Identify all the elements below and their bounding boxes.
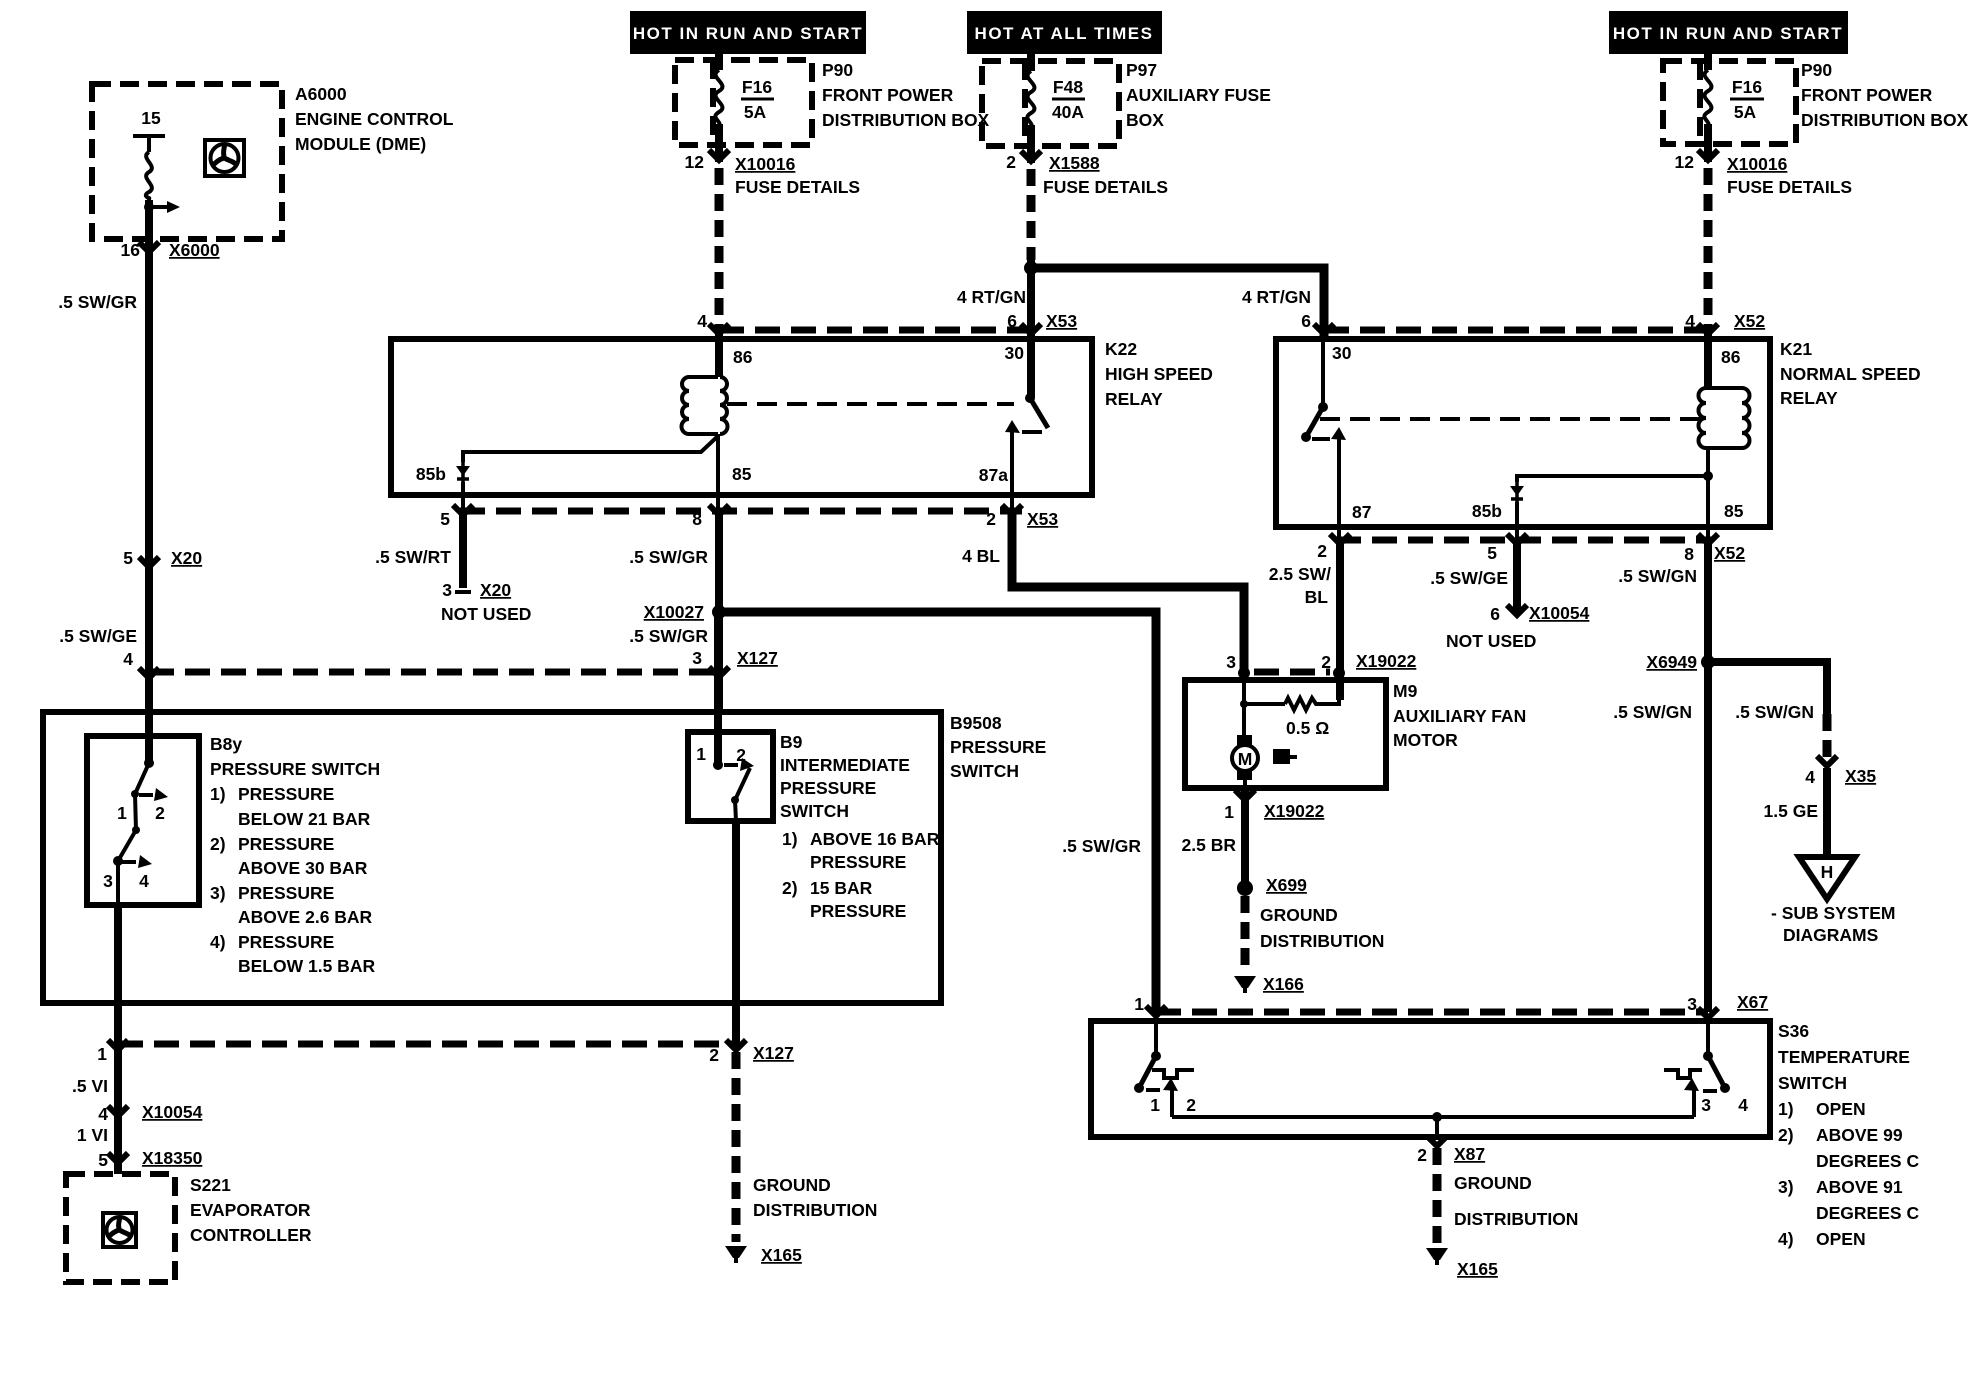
svg-text:OPEN: OPEN	[1816, 1099, 1866, 1119]
svg-text:INTERMEDIATE: INTERMEDIATE	[780, 755, 910, 775]
svg-text:5: 5	[1487, 543, 1497, 563]
svg-text:2.5 SW/: 2.5 SW/	[1269, 564, 1331, 584]
svg-text:DISTRIBUTION: DISTRIBUTION	[1454, 1209, 1578, 1229]
svg-text:MOTOR: MOTOR	[1393, 730, 1458, 750]
svg-text:2): 2)	[782, 878, 798, 898]
svg-text:ABOVE 91: ABOVE 91	[1816, 1177, 1903, 1197]
svg-text:X20: X20	[480, 580, 511, 600]
svg-text:OPEN: OPEN	[1816, 1229, 1866, 1249]
svg-text:1): 1)	[782, 829, 798, 849]
svg-text:6: 6	[1301, 311, 1311, 331]
svg-text:12: 12	[1675, 152, 1695, 172]
svg-text:F48: F48	[1053, 77, 1083, 97]
svg-text:HOT IN RUN AND START: HOT IN RUN AND START	[1613, 24, 1843, 43]
svg-text:2): 2)	[1778, 1125, 1794, 1145]
svg-text:X6000: X6000	[169, 240, 220, 260]
svg-text:PRESSURE: PRESSURE	[238, 883, 334, 903]
svg-text:X127: X127	[737, 648, 778, 668]
svg-text:PRESSURE: PRESSURE	[780, 778, 876, 798]
svg-text:DISTRIBUTION BOX: DISTRIBUTION BOX	[1801, 110, 1969, 130]
svg-text:FUSE DETAILS: FUSE DETAILS	[1043, 177, 1168, 197]
svg-text:RELAY: RELAY	[1780, 388, 1838, 408]
svg-text:4 RT/GN: 4 RT/GN	[1242, 287, 1311, 307]
svg-text:FRONT POWER: FRONT POWER	[822, 85, 954, 105]
svg-text:X52: X52	[1734, 311, 1765, 331]
svg-text:X699: X699	[1266, 875, 1307, 895]
svg-text:15: 15	[141, 108, 161, 128]
svg-text:SWITCH: SWITCH	[950, 761, 1019, 781]
svg-text:X53: X53	[1027, 509, 1058, 529]
svg-text:DIAGRAMS: DIAGRAMS	[1783, 925, 1878, 945]
svg-text:.5 SW/RT: .5 SW/RT	[375, 547, 451, 567]
svg-text:30: 30	[1005, 343, 1025, 363]
svg-text:ABOVE 16 BAR: ABOVE 16 BAR	[810, 829, 940, 849]
svg-text:5: 5	[123, 548, 133, 568]
svg-text:K21: K21	[1780, 339, 1812, 359]
svg-text:X52: X52	[1714, 543, 1745, 563]
svg-text:4 RT/GN: 4 RT/GN	[957, 287, 1026, 307]
svg-text:5A: 5A	[1734, 102, 1757, 122]
svg-text:BELOW 21 BAR: BELOW 21 BAR	[238, 809, 371, 829]
svg-text:5: 5	[440, 509, 450, 529]
svg-text:X19022: X19022	[1264, 801, 1325, 821]
svg-text:PRESSURE: PRESSURE	[238, 834, 334, 854]
svg-text:87: 87	[1352, 502, 1371, 522]
svg-text:EVAPORATOR: EVAPORATOR	[190, 1200, 311, 1220]
svg-text:30: 30	[1332, 343, 1352, 363]
svg-text:B9508: B9508	[950, 713, 1002, 733]
svg-text:BL: BL	[1305, 587, 1329, 607]
svg-text:2: 2	[1186, 1095, 1196, 1115]
svg-text:CONTROLLER: CONTROLLER	[190, 1225, 312, 1245]
svg-text:MODULE (DME): MODULE (DME)	[295, 134, 426, 154]
svg-text:85: 85	[1724, 501, 1744, 521]
svg-text:3: 3	[692, 648, 702, 668]
svg-text:2: 2	[986, 509, 996, 529]
svg-text:DEGREES C: DEGREES C	[1816, 1151, 1919, 1171]
svg-text:PRESSURE: PRESSURE	[238, 932, 334, 952]
svg-text:B8y: B8y	[210, 734, 242, 754]
svg-text:3: 3	[1687, 994, 1697, 1014]
svg-text:X127: X127	[753, 1043, 794, 1063]
svg-text:4: 4	[98, 1104, 108, 1124]
svg-text:1): 1)	[1778, 1099, 1794, 1119]
svg-text:FUSE DETAILS: FUSE DETAILS	[1727, 177, 1852, 197]
svg-text:12: 12	[685, 152, 705, 172]
svg-text:X18350: X18350	[142, 1148, 203, 1168]
svg-text:FUSE DETAILS: FUSE DETAILS	[735, 177, 860, 197]
svg-text:3: 3	[103, 871, 113, 891]
svg-text:0.5 Ω: 0.5 Ω	[1286, 718, 1329, 738]
svg-text:DISTRIBUTION: DISTRIBUTION	[1260, 931, 1384, 951]
svg-text:4: 4	[123, 649, 133, 669]
svg-text:HOT IN RUN AND START: HOT IN RUN AND START	[633, 24, 863, 43]
svg-text:2.5 BR: 2.5 BR	[1182, 835, 1237, 855]
svg-text:8: 8	[1684, 544, 1694, 564]
svg-text:GROUND: GROUND	[1260, 905, 1338, 925]
svg-text:1: 1	[117, 803, 127, 823]
svg-text:F16: F16	[1732, 77, 1762, 97]
svg-text:4: 4	[697, 311, 707, 331]
svg-text:X165: X165	[761, 1245, 802, 1265]
svg-text:ENGINE CONTROL: ENGINE CONTROL	[295, 109, 454, 129]
svg-text:1: 1	[1134, 994, 1144, 1014]
svg-text:X10027: X10027	[644, 602, 704, 622]
svg-text:.5 SW/GN: .5 SW/GN	[1735, 702, 1814, 722]
svg-text:87a: 87a	[979, 465, 1008, 485]
svg-text:4: 4	[1738, 1095, 1748, 1115]
svg-text:PRESSURE: PRESSURE	[238, 784, 334, 804]
svg-text:SWITCH: SWITCH	[1778, 1073, 1847, 1093]
svg-text:X20: X20	[171, 548, 202, 568]
svg-text:15 BAR: 15 BAR	[810, 878, 873, 898]
svg-text:BELOW 1.5 BAR: BELOW 1.5 BAR	[238, 956, 375, 976]
svg-text:X19022: X19022	[1356, 651, 1417, 671]
svg-text:.5 SW/GE: .5 SW/GE	[59, 626, 137, 646]
svg-text:.5 SW/GE: .5 SW/GE	[1430, 568, 1508, 588]
svg-text:X6949: X6949	[1646, 652, 1697, 672]
svg-text:SWITCH: SWITCH	[780, 801, 849, 821]
svg-text:X165: X165	[1457, 1259, 1498, 1279]
svg-text:B9: B9	[780, 732, 803, 752]
svg-text:H: H	[1821, 862, 1834, 882]
svg-text:6: 6	[1490, 604, 1500, 624]
svg-text:2: 2	[155, 803, 165, 823]
svg-text:P97: P97	[1126, 60, 1157, 80]
svg-text:X87: X87	[1454, 1144, 1485, 1164]
svg-text:4: 4	[1685, 311, 1695, 331]
svg-text:PRESSURE: PRESSURE	[810, 852, 906, 872]
svg-text:86: 86	[733, 347, 753, 367]
svg-text:4 BL: 4 BL	[962, 546, 1000, 566]
svg-text:.5 SW/GR: .5 SW/GR	[1062, 836, 1141, 856]
svg-text:F16: F16	[742, 77, 772, 97]
svg-text:M: M	[1238, 749, 1253, 769]
svg-text:86: 86	[1721, 347, 1741, 367]
svg-text:ABOVE 2.6 BAR: ABOVE 2.6 BAR	[238, 907, 373, 927]
svg-text:.5 VI: .5 VI	[72, 1076, 108, 1096]
svg-text:FRONT POWER: FRONT POWER	[1801, 85, 1933, 105]
svg-text:X1588: X1588	[1049, 153, 1100, 173]
svg-text:2: 2	[709, 1045, 719, 1065]
svg-text:6: 6	[1007, 311, 1017, 331]
svg-text:X10054: X10054	[1529, 603, 1590, 623]
svg-text:4: 4	[139, 871, 149, 891]
svg-text:GROUND: GROUND	[753, 1175, 831, 1195]
svg-text:85b: 85b	[1472, 501, 1502, 521]
svg-text:2: 2	[1006, 152, 1016, 172]
svg-text:2: 2	[1417, 1145, 1427, 1165]
svg-text:DISTRIBUTION BOX: DISTRIBUTION BOX	[822, 110, 990, 130]
svg-text:85b: 85b	[416, 464, 446, 484]
svg-text:DISTRIBUTION: DISTRIBUTION	[753, 1200, 877, 1220]
svg-text:X35: X35	[1845, 766, 1876, 786]
svg-text:PRESSURE: PRESSURE	[810, 901, 906, 921]
svg-text:NORMAL SPEED: NORMAL SPEED	[1780, 364, 1921, 384]
svg-text:A6000: A6000	[295, 84, 347, 104]
svg-text:NOT USED: NOT USED	[441, 604, 531, 624]
svg-text:4: 4	[1805, 767, 1815, 787]
svg-text:P90: P90	[1801, 60, 1832, 80]
svg-text:1.5 GE: 1.5 GE	[1764, 801, 1818, 821]
svg-text:2: 2	[736, 745, 746, 765]
svg-text:AUXILIARY FUSE: AUXILIARY FUSE	[1126, 85, 1271, 105]
svg-text:3): 3)	[1778, 1177, 1794, 1197]
svg-text:8: 8	[692, 509, 702, 529]
svg-text:PRESSURE SWITCH: PRESSURE SWITCH	[210, 759, 380, 779]
svg-text:2: 2	[1317, 541, 1327, 561]
svg-text:3): 3)	[210, 883, 226, 903]
svg-text:.5 SW/GN: .5 SW/GN	[1618, 566, 1697, 586]
svg-text:HOT AT ALL TIMES: HOT AT ALL TIMES	[975, 24, 1154, 43]
svg-text:40A: 40A	[1052, 102, 1084, 122]
svg-text:ABOVE 99: ABOVE 99	[1816, 1125, 1903, 1145]
svg-text:5: 5	[98, 1150, 108, 1170]
svg-text:1: 1	[97, 1044, 107, 1064]
svg-text:1: 1	[1150, 1095, 1160, 1115]
svg-text:K22: K22	[1105, 339, 1137, 359]
svg-text:X67: X67	[1737, 992, 1768, 1012]
svg-text:P90: P90	[822, 60, 853, 80]
svg-text:4): 4)	[1778, 1229, 1794, 1249]
svg-text:X53: X53	[1046, 311, 1077, 331]
svg-text:M9: M9	[1393, 681, 1418, 701]
svg-text:BOX: BOX	[1126, 110, 1164, 130]
svg-text:3: 3	[442, 580, 452, 600]
svg-text:.5 SW/GR: .5 SW/GR	[629, 626, 708, 646]
svg-text:3: 3	[1226, 652, 1236, 672]
svg-text:- SUB SYSTEM: - SUB SYSTEM	[1771, 903, 1895, 923]
svg-text:X10016: X10016	[1727, 154, 1788, 174]
svg-text:.5 SW/GN: .5 SW/GN	[1613, 702, 1692, 722]
svg-text:1: 1	[1224, 802, 1234, 822]
svg-text:.5 SW/GR: .5 SW/GR	[629, 547, 708, 567]
svg-text:S36: S36	[1778, 1021, 1809, 1041]
svg-text:X10016: X10016	[735, 154, 796, 174]
svg-text:X10054: X10054	[142, 1102, 203, 1122]
svg-text:1: 1	[696, 744, 706, 764]
svg-text:X166: X166	[1263, 974, 1304, 994]
svg-text:85: 85	[732, 464, 752, 484]
svg-text:ABOVE 30 BAR: ABOVE 30 BAR	[238, 858, 368, 878]
svg-text:1): 1)	[210, 784, 226, 804]
svg-text:16: 16	[121, 240, 141, 260]
svg-text:4): 4)	[210, 932, 226, 952]
svg-text:GROUND: GROUND	[1454, 1173, 1532, 1193]
svg-text:PRESSURE: PRESSURE	[950, 737, 1046, 757]
svg-text:RELAY: RELAY	[1105, 389, 1163, 409]
svg-text:HIGH SPEED: HIGH SPEED	[1105, 364, 1213, 384]
svg-text:2: 2	[1321, 652, 1331, 672]
svg-text:TEMPERATURE: TEMPERATURE	[1778, 1047, 1910, 1067]
svg-text:AUXILIARY FAN: AUXILIARY FAN	[1393, 706, 1526, 726]
svg-text:5A: 5A	[744, 102, 767, 122]
svg-text:NOT USED: NOT USED	[1446, 631, 1536, 651]
svg-text:.5 SW/GR: .5 SW/GR	[58, 292, 137, 312]
svg-text:DEGREES C: DEGREES C	[1816, 1203, 1919, 1223]
svg-text:3: 3	[1701, 1095, 1711, 1115]
svg-text:2): 2)	[210, 834, 226, 854]
svg-text:S221: S221	[190, 1175, 231, 1195]
svg-text:1 VI: 1 VI	[77, 1125, 108, 1145]
